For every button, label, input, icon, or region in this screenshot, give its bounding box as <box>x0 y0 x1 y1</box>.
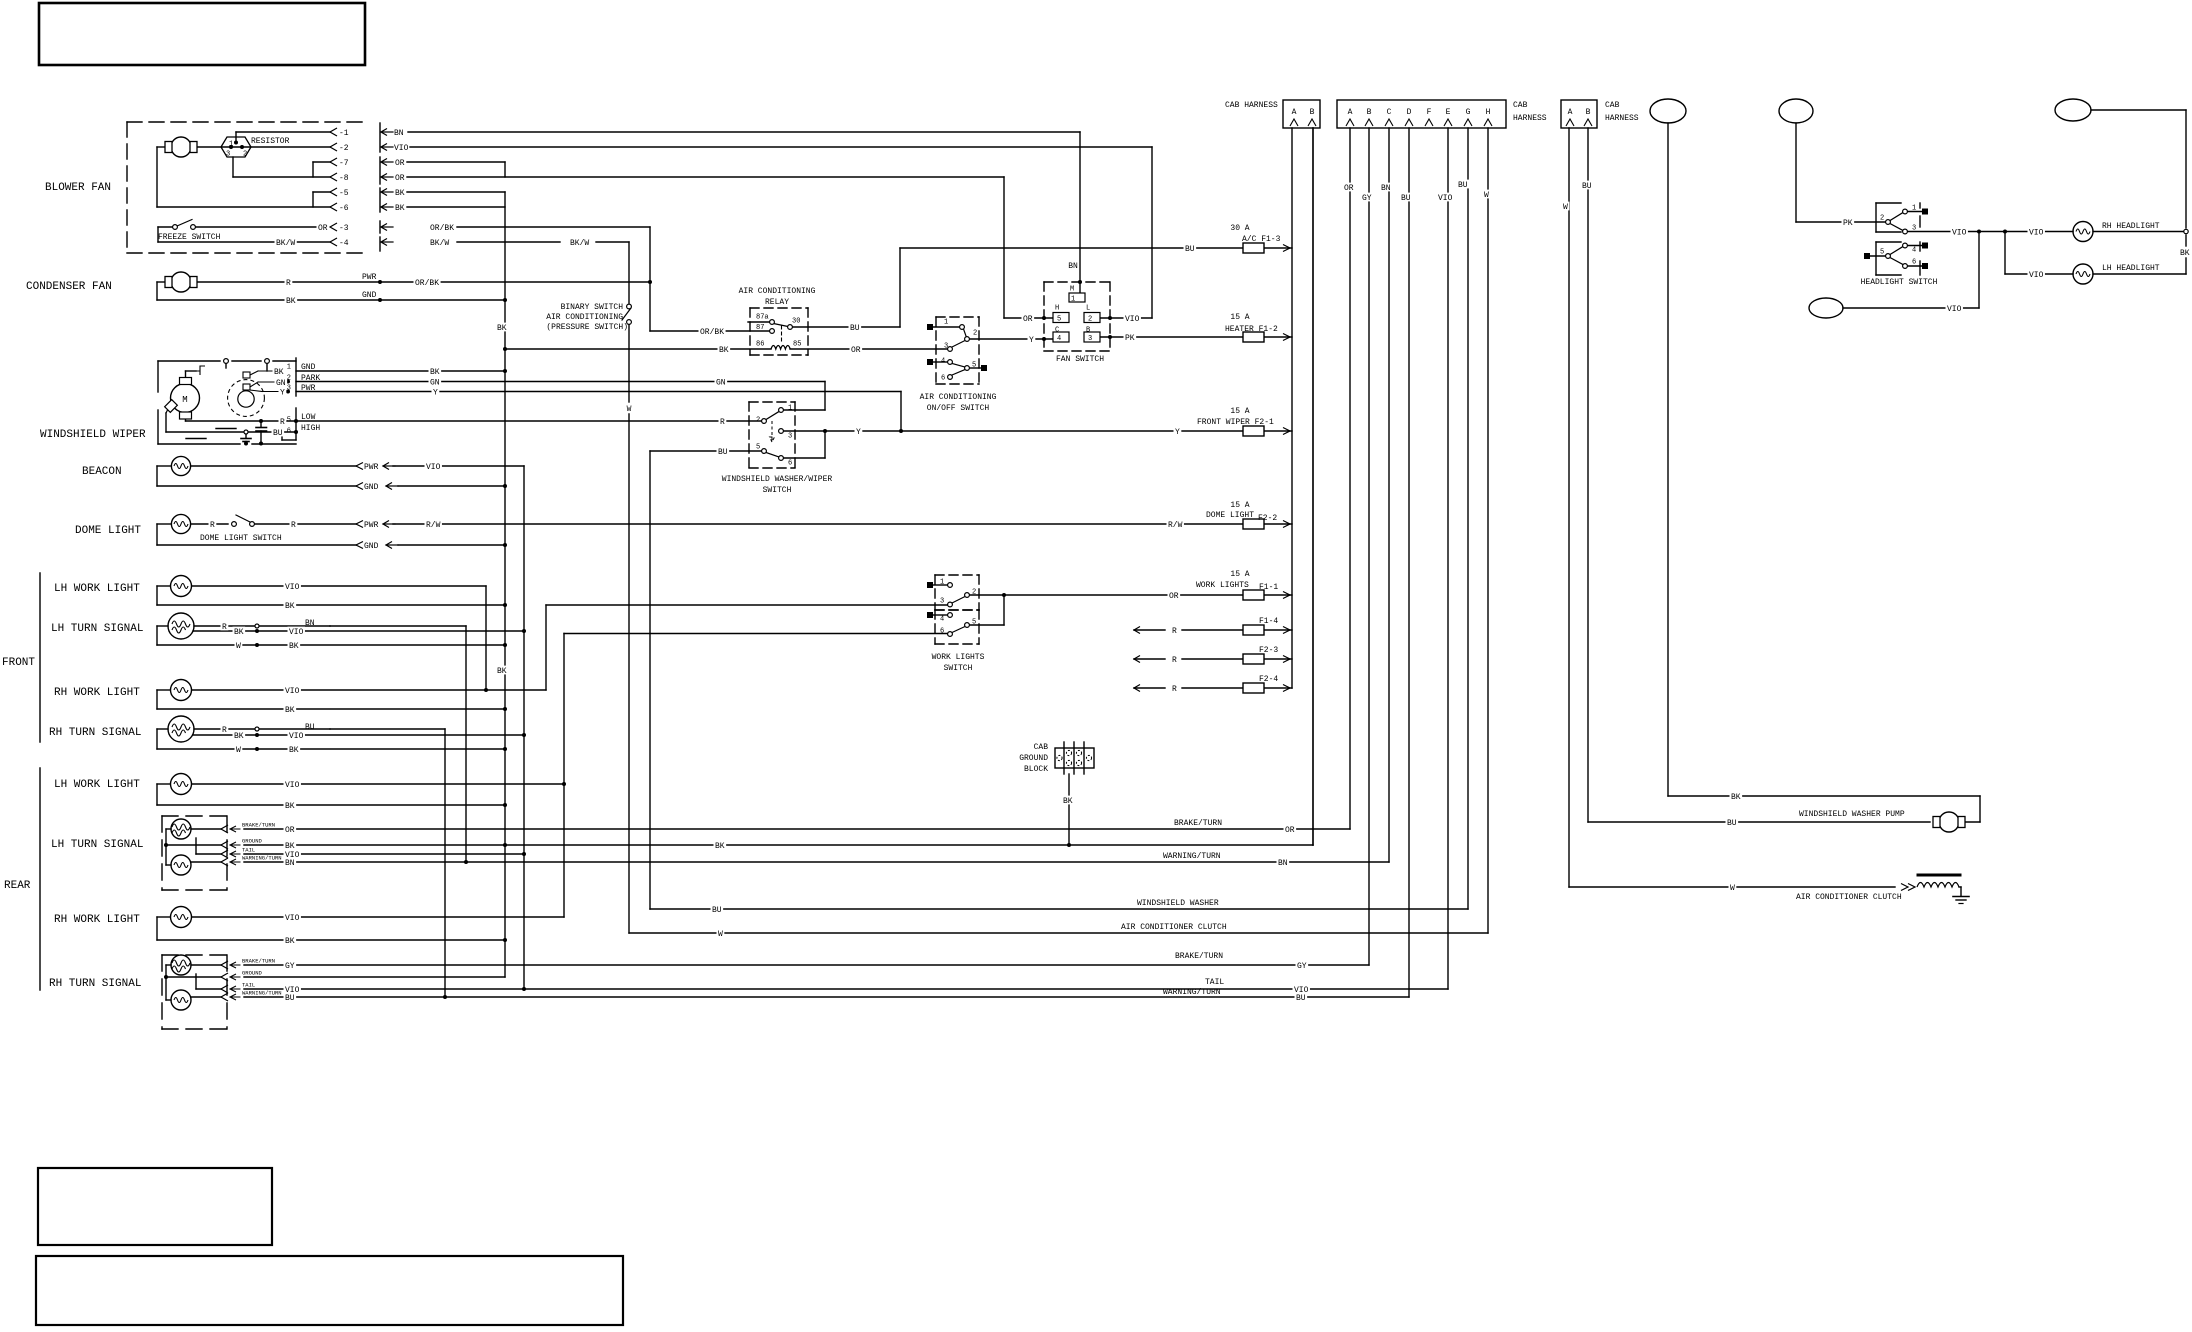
svg-text:WINDSHIELD WASHER: WINDSHIELD WASHER <box>1137 899 1219 908</box>
svg-text:FREEZE SWITCH: FREEZE SWITCH <box>158 233 221 242</box>
svg-text:4: 4 <box>1912 247 1916 255</box>
svg-text:GND: GND <box>364 542 379 551</box>
svg-text:BK: BK <box>719 346 729 355</box>
svg-text:AIR CONDITIONING: AIR CONDITIONING <box>546 313 623 322</box>
svg-text:A/C F1-3: A/C F1-3 <box>1242 235 1281 244</box>
svg-text:WORK LIGHTS: WORK LIGHTS <box>932 653 985 662</box>
svg-text:CAB: CAB <box>1605 101 1620 110</box>
svg-text:-5: -5 <box>339 189 349 198</box>
svg-text:BK/W: BK/W <box>276 239 295 248</box>
svg-text:3: 3 <box>940 598 944 606</box>
svg-text:VIO: VIO <box>426 463 441 472</box>
svg-text:BK/W: BK/W <box>570 239 589 248</box>
svg-text:W: W <box>718 930 723 939</box>
svg-text:1: 1 <box>944 319 948 327</box>
svg-text:6: 6 <box>940 628 944 636</box>
svg-text:WARNING/TURN: WARNING/TURN <box>1163 988 1221 997</box>
svg-text:3: 3 <box>788 433 792 441</box>
svg-text:VIO: VIO <box>285 914 300 923</box>
svg-text:OR/BK: OR/BK <box>700 328 724 337</box>
svg-text:VIO: VIO <box>1438 194 1453 203</box>
svg-text:OR: OR <box>1344 184 1354 193</box>
svg-text:RH TURN SIGNAL: RH TURN SIGNAL <box>49 727 141 739</box>
svg-text:LH TURN SIGNAL: LH TURN SIGNAL <box>51 839 143 851</box>
svg-text:R: R <box>210 521 215 530</box>
svg-text:BU: BU <box>1582 182 1592 191</box>
svg-text:BK: BK <box>497 324 507 333</box>
svg-text:HARNESS: HARNESS <box>1513 114 1547 123</box>
svg-text:RH WORK LIGHT: RH WORK LIGHT <box>54 687 140 699</box>
svg-text:3: 3 <box>1088 335 1092 343</box>
svg-text:VIO: VIO <box>1952 228 1967 237</box>
svg-text:WARNING/TURN: WARNING/TURN <box>242 989 282 996</box>
svg-text:GY: GY <box>1362 194 1372 203</box>
svg-text:OR: OR <box>1023 315 1033 324</box>
svg-text:GN: GN <box>276 379 286 388</box>
svg-text:BK: BK <box>395 204 405 213</box>
svg-text:B: B <box>1310 108 1315 117</box>
svg-text:1: 1 <box>1071 296 1075 304</box>
svg-text:OR: OR <box>318 224 328 233</box>
svg-text:3: 3 <box>944 343 948 351</box>
svg-text:BRAKE/TURN: BRAKE/TURN <box>1174 819 1222 828</box>
svg-text:86: 86 <box>756 341 764 349</box>
svg-text:BLOWER FAN: BLOWER FAN <box>45 182 111 194</box>
svg-text:15 A: 15 A <box>1230 501 1249 510</box>
svg-text:BK: BK <box>2180 249 2190 258</box>
svg-text:WINDSHIELD WASHER PUMP: WINDSHIELD WASHER PUMP <box>1799 810 1905 819</box>
svg-text:DOME LIGHT: DOME LIGHT <box>1206 511 1254 520</box>
svg-text:BN: BN <box>305 619 315 628</box>
svg-text:-4: -4 <box>339 239 349 248</box>
svg-text:2: 2 <box>1880 215 1884 223</box>
svg-text:LH WORK LIGHT: LH WORK LIGHT <box>54 779 140 791</box>
svg-text:PWR: PWR <box>364 521 379 530</box>
svg-text:SWITCH: SWITCH <box>944 664 973 673</box>
svg-text:WARNING/TURN: WARNING/TURN <box>242 854 282 861</box>
svg-text:VIO: VIO <box>285 687 300 696</box>
svg-text:BU: BU <box>305 723 315 732</box>
svg-text:W: W <box>627 405 632 414</box>
svg-text:WINDSHIELD WIPER: WINDSHIELD WIPER <box>40 429 146 441</box>
svg-text:BU: BU <box>273 429 283 438</box>
svg-text:BU: BU <box>1727 819 1737 828</box>
svg-text:VIO: VIO <box>285 583 300 592</box>
svg-text:(PRESSURE SWITCH): (PRESSURE SWITCH) <box>546 323 628 332</box>
svg-text:BU: BU <box>285 994 295 1003</box>
svg-text:F2-3: F2-3 <box>1259 646 1278 655</box>
svg-text:GROUND: GROUND <box>242 969 263 976</box>
svg-text:BRAKE/TURN: BRAKE/TURN <box>242 957 275 964</box>
svg-text:W: W <box>1563 203 1568 212</box>
svg-text:CAB: CAB <box>1034 743 1049 752</box>
svg-text:A: A <box>1568 108 1573 117</box>
svg-text:A: A <box>1348 108 1353 117</box>
svg-text:BK: BK <box>497 667 507 676</box>
svg-text:GY: GY <box>285 962 295 971</box>
svg-text:DOME LIGHT SWITCH: DOME LIGHT SWITCH <box>200 534 282 543</box>
svg-text:Y: Y <box>433 388 438 397</box>
svg-text:2: 2 <box>1088 316 1092 324</box>
svg-text:5: 5 <box>1880 249 1884 257</box>
svg-text:5: 5 <box>1057 316 1061 324</box>
svg-text:PWR: PWR <box>364 463 379 472</box>
svg-text:BK: BK <box>715 842 725 851</box>
svg-text:15 A: 15 A <box>1230 407 1249 416</box>
svg-text:VIO: VIO <box>285 781 300 790</box>
svg-text:1: 1 <box>788 405 792 413</box>
svg-text:1: 1 <box>229 141 233 149</box>
svg-text:5: 5 <box>287 417 291 425</box>
svg-text:BN: BN <box>1278 859 1288 868</box>
svg-text:DOME LIGHT: DOME LIGHT <box>75 525 141 537</box>
svg-text:-1: -1 <box>339 129 349 138</box>
svg-text:LH HEADLIGHT: LH HEADLIGHT <box>2102 264 2160 273</box>
svg-text:BEACON: BEACON <box>82 466 122 478</box>
svg-text:VIO: VIO <box>1947 305 1962 314</box>
svg-text:AIR CONDITIONER CLUTCH: AIR CONDITIONER CLUTCH <box>1796 893 1902 902</box>
svg-text:GND: GND <box>364 483 379 492</box>
svg-text:OR: OR <box>395 159 405 168</box>
svg-text:VIO: VIO <box>394 144 409 153</box>
svg-text:30 A: 30 A <box>1230 224 1249 233</box>
svg-text:R/W: R/W <box>1168 521 1183 530</box>
svg-text:R: R <box>222 623 227 632</box>
svg-text:VIO: VIO <box>1125 315 1140 324</box>
svg-text:1: 1 <box>287 364 291 372</box>
svg-text:BRAKE/TURN: BRAKE/TURN <box>242 821 275 828</box>
svg-text:30: 30 <box>792 318 800 326</box>
svg-text:-7: -7 <box>339 159 349 168</box>
svg-text:AIR CONDITIONING: AIR CONDITIONING <box>920 393 997 402</box>
svg-text:R/W: R/W <box>426 521 441 530</box>
svg-text:GROUND: GROUND <box>1019 754 1048 763</box>
svg-text:M: M <box>182 395 187 405</box>
svg-text:CAB: CAB <box>1513 101 1528 110</box>
svg-text:R: R <box>222 726 227 735</box>
svg-text:FAN SWITCH: FAN SWITCH <box>1056 355 1104 364</box>
svg-text:87: 87 <box>756 324 764 332</box>
svg-text:REAR: REAR <box>4 880 31 892</box>
svg-text:B: B <box>1367 108 1372 117</box>
svg-text:6: 6 <box>941 375 945 383</box>
svg-text:C: C <box>1387 108 1392 117</box>
svg-text:BK: BK <box>289 642 299 651</box>
svg-text:OR: OR <box>1169 592 1179 601</box>
svg-text:4: 4 <box>1057 335 1061 343</box>
svg-text:R: R <box>1172 685 1177 694</box>
svg-text:4: 4 <box>940 616 944 624</box>
svg-text:BINARY SWITCH: BINARY SWITCH <box>561 303 624 312</box>
svg-text:H: H <box>1486 108 1491 117</box>
svg-text:BLOCK: BLOCK <box>1024 765 1048 774</box>
svg-text:BK: BK <box>395 189 405 198</box>
svg-text:WINDSHIELD WASHER/WIPER: WINDSHIELD WASHER/WIPER <box>722 475 833 484</box>
svg-text:BK: BK <box>274 368 284 377</box>
svg-text:BK/W: BK/W <box>430 239 449 248</box>
svg-text:5: 5 <box>756 444 760 452</box>
svg-text:BU: BU <box>712 906 722 915</box>
svg-text:W: W <box>1484 191 1489 200</box>
svg-text:PWR: PWR <box>301 384 316 393</box>
svg-text:LH TURN SIGNAL: LH TURN SIGNAL <box>51 623 143 635</box>
svg-text:PK: PK <box>1843 219 1853 228</box>
svg-text:HEADLIGHT SWITCH: HEADLIGHT SWITCH <box>1861 278 1938 287</box>
svg-text:BU: BU <box>718 448 728 457</box>
svg-text:F: F <box>1427 108 1432 117</box>
svg-text:15 A: 15 A <box>1230 570 1249 579</box>
svg-text:Y: Y <box>280 388 285 397</box>
svg-text:F2-2: F2-2 <box>1258 514 1277 523</box>
svg-text:OR/BK: OR/BK <box>430 224 454 233</box>
svg-text:PARK: PARK <box>301 374 320 383</box>
svg-text:C: C <box>1055 327 1059 335</box>
svg-text:HIGH: HIGH <box>301 424 320 433</box>
svg-text:BK: BK <box>289 746 299 755</box>
svg-text:3: 3 <box>226 151 230 159</box>
svg-text:OR: OR <box>851 346 861 355</box>
svg-text:BK: BK <box>234 732 244 741</box>
svg-text:15 A: 15 A <box>1230 313 1249 322</box>
svg-text:2: 2 <box>287 375 291 383</box>
svg-text:LOW: LOW <box>301 413 316 422</box>
svg-text:R: R <box>291 521 296 530</box>
svg-text:BK: BK <box>286 297 296 306</box>
svg-text:PK: PK <box>1125 334 1135 343</box>
svg-text:BK: BK <box>285 842 295 851</box>
svg-text:BK: BK <box>285 802 295 811</box>
svg-text:BN: BN <box>1381 184 1391 193</box>
svg-text:-2: -2 <box>339 144 349 153</box>
svg-text:WORK LIGHTS: WORK LIGHTS <box>1196 581 1249 590</box>
svg-text:6: 6 <box>1912 259 1916 267</box>
svg-text:5: 5 <box>972 362 976 370</box>
svg-text:F2-4: F2-4 <box>1259 675 1278 684</box>
svg-text:BK: BK <box>285 602 295 611</box>
svg-text:GN: GN <box>430 378 440 387</box>
svg-text:RH HEADLIGHT: RH HEADLIGHT <box>2102 222 2160 231</box>
svg-text:L: L <box>1086 305 1090 313</box>
svg-text:Y: Y <box>856 428 861 437</box>
svg-text:W: W <box>236 642 241 651</box>
svg-text:GN: GN <box>716 378 726 387</box>
svg-text:BN: BN <box>285 859 295 868</box>
svg-text:HARNESS: HARNESS <box>1605 114 1639 123</box>
svg-text:F1-4: F1-4 <box>1259 617 1278 626</box>
svg-text:E: E <box>1446 108 1451 117</box>
svg-text:1: 1 <box>1912 205 1916 213</box>
svg-text:TAIL: TAIL <box>1205 978 1224 987</box>
svg-text:PWR: PWR <box>362 273 377 282</box>
svg-text:D: D <box>1407 108 1412 117</box>
svg-text:TAIL: TAIL <box>242 981 255 988</box>
svg-text:W: W <box>1730 884 1735 893</box>
svg-text:CONDENSER FAN: CONDENSER FAN <box>26 281 112 293</box>
svg-text:H: H <box>1055 305 1059 313</box>
svg-text:VIO: VIO <box>2029 228 2044 237</box>
svg-text:R: R <box>1172 656 1177 665</box>
svg-text:R: R <box>280 418 285 427</box>
svg-text:BK: BK <box>1731 793 1741 802</box>
svg-text:BU: BU <box>850 324 860 333</box>
svg-text:-3: -3 <box>339 224 349 233</box>
svg-text:Y: Y <box>1029 336 1034 345</box>
svg-text:BU: BU <box>1401 194 1411 203</box>
svg-text:GND: GND <box>362 291 377 300</box>
svg-text:2: 2 <box>243 151 247 159</box>
svg-text:WARNING/TURN: WARNING/TURN <box>1163 852 1221 861</box>
svg-text:CAB HARNESS: CAB HARNESS <box>1225 101 1278 110</box>
svg-text:GY: GY <box>1297 962 1307 971</box>
svg-text:BRAKE/TURN: BRAKE/TURN <box>1175 952 1223 961</box>
svg-text:BN: BN <box>1068 262 1078 271</box>
svg-text:TAIL: TAIL <box>242 846 255 853</box>
svg-text:Y: Y <box>1175 428 1180 437</box>
svg-text:5: 5 <box>972 619 976 627</box>
svg-text:GROUND: GROUND <box>242 837 263 844</box>
svg-text:ON/OFF SWITCH: ON/OFF SWITCH <box>927 404 990 413</box>
svg-text:BN: BN <box>394 129 404 138</box>
svg-text:VIO: VIO <box>289 628 304 637</box>
svg-text:3: 3 <box>287 385 291 393</box>
svg-text:OR/BK: OR/BK <box>415 279 439 288</box>
svg-text:LH WORK LIGHT: LH WORK LIGHT <box>54 583 140 595</box>
svg-text:6: 6 <box>788 460 792 468</box>
svg-text:R: R <box>720 418 725 427</box>
svg-text:GND: GND <box>301 363 316 372</box>
svg-text:W: W <box>236 746 241 755</box>
svg-text:87a: 87a <box>756 314 769 322</box>
svg-text:6: 6 <box>287 428 291 436</box>
svg-text:G: G <box>1466 108 1471 117</box>
svg-text:AIR CONDITIONER CLUTCH: AIR CONDITIONER CLUTCH <box>1121 923 1227 932</box>
svg-text:-8: -8 <box>339 174 349 183</box>
svg-text:RH TURN SIGNAL: RH TURN SIGNAL <box>49 978 141 990</box>
svg-text:OR: OR <box>395 174 405 183</box>
svg-text:OR: OR <box>285 826 295 835</box>
svg-text:HEATER F1-2: HEATER F1-2 <box>1225 325 1278 334</box>
svg-text:R: R <box>286 279 291 288</box>
svg-text:OR: OR <box>1285 826 1295 835</box>
svg-text:F1-1: F1-1 <box>1259 583 1278 592</box>
svg-text:RH WORK LIGHT: RH WORK LIGHT <box>54 914 140 926</box>
svg-text:3: 3 <box>1912 225 1916 233</box>
svg-text:B: B <box>1086 327 1090 335</box>
svg-text:-6: -6 <box>339 204 349 213</box>
svg-text:VIO: VIO <box>289 732 304 741</box>
svg-text:BK: BK <box>285 937 295 946</box>
svg-text:BU: BU <box>1296 994 1306 1003</box>
svg-text:85: 85 <box>793 341 801 349</box>
svg-text:FRONT: FRONT <box>2 657 35 669</box>
svg-text:2: 2 <box>756 417 760 425</box>
svg-text:4: 4 <box>941 358 945 366</box>
svg-text:2: 2 <box>973 330 977 338</box>
svg-text:BK: BK <box>234 628 244 637</box>
svg-text:BU: BU <box>1458 181 1468 190</box>
svg-text:RELAY: RELAY <box>765 298 789 307</box>
svg-text:BK: BK <box>1063 797 1073 806</box>
svg-text:AIR CONDITIONING: AIR CONDITIONING <box>739 287 816 296</box>
svg-text:A: A <box>1292 108 1297 117</box>
svg-text:FRONT WIPER F2-1: FRONT WIPER F2-1 <box>1197 418 1274 427</box>
svg-text:BK: BK <box>430 368 440 377</box>
svg-text:BU: BU <box>1185 245 1195 254</box>
svg-text:BK: BK <box>285 706 295 715</box>
svg-text:VIO: VIO <box>2029 271 2044 280</box>
svg-text:1: 1 <box>940 579 944 587</box>
svg-text:B: B <box>1586 108 1591 117</box>
svg-text:SWITCH: SWITCH <box>763 486 792 495</box>
svg-text:2: 2 <box>972 589 976 597</box>
svg-text:RESISTOR: RESISTOR <box>251 137 290 146</box>
svg-text:M: M <box>1070 286 1074 294</box>
svg-text:R: R <box>1172 627 1177 636</box>
